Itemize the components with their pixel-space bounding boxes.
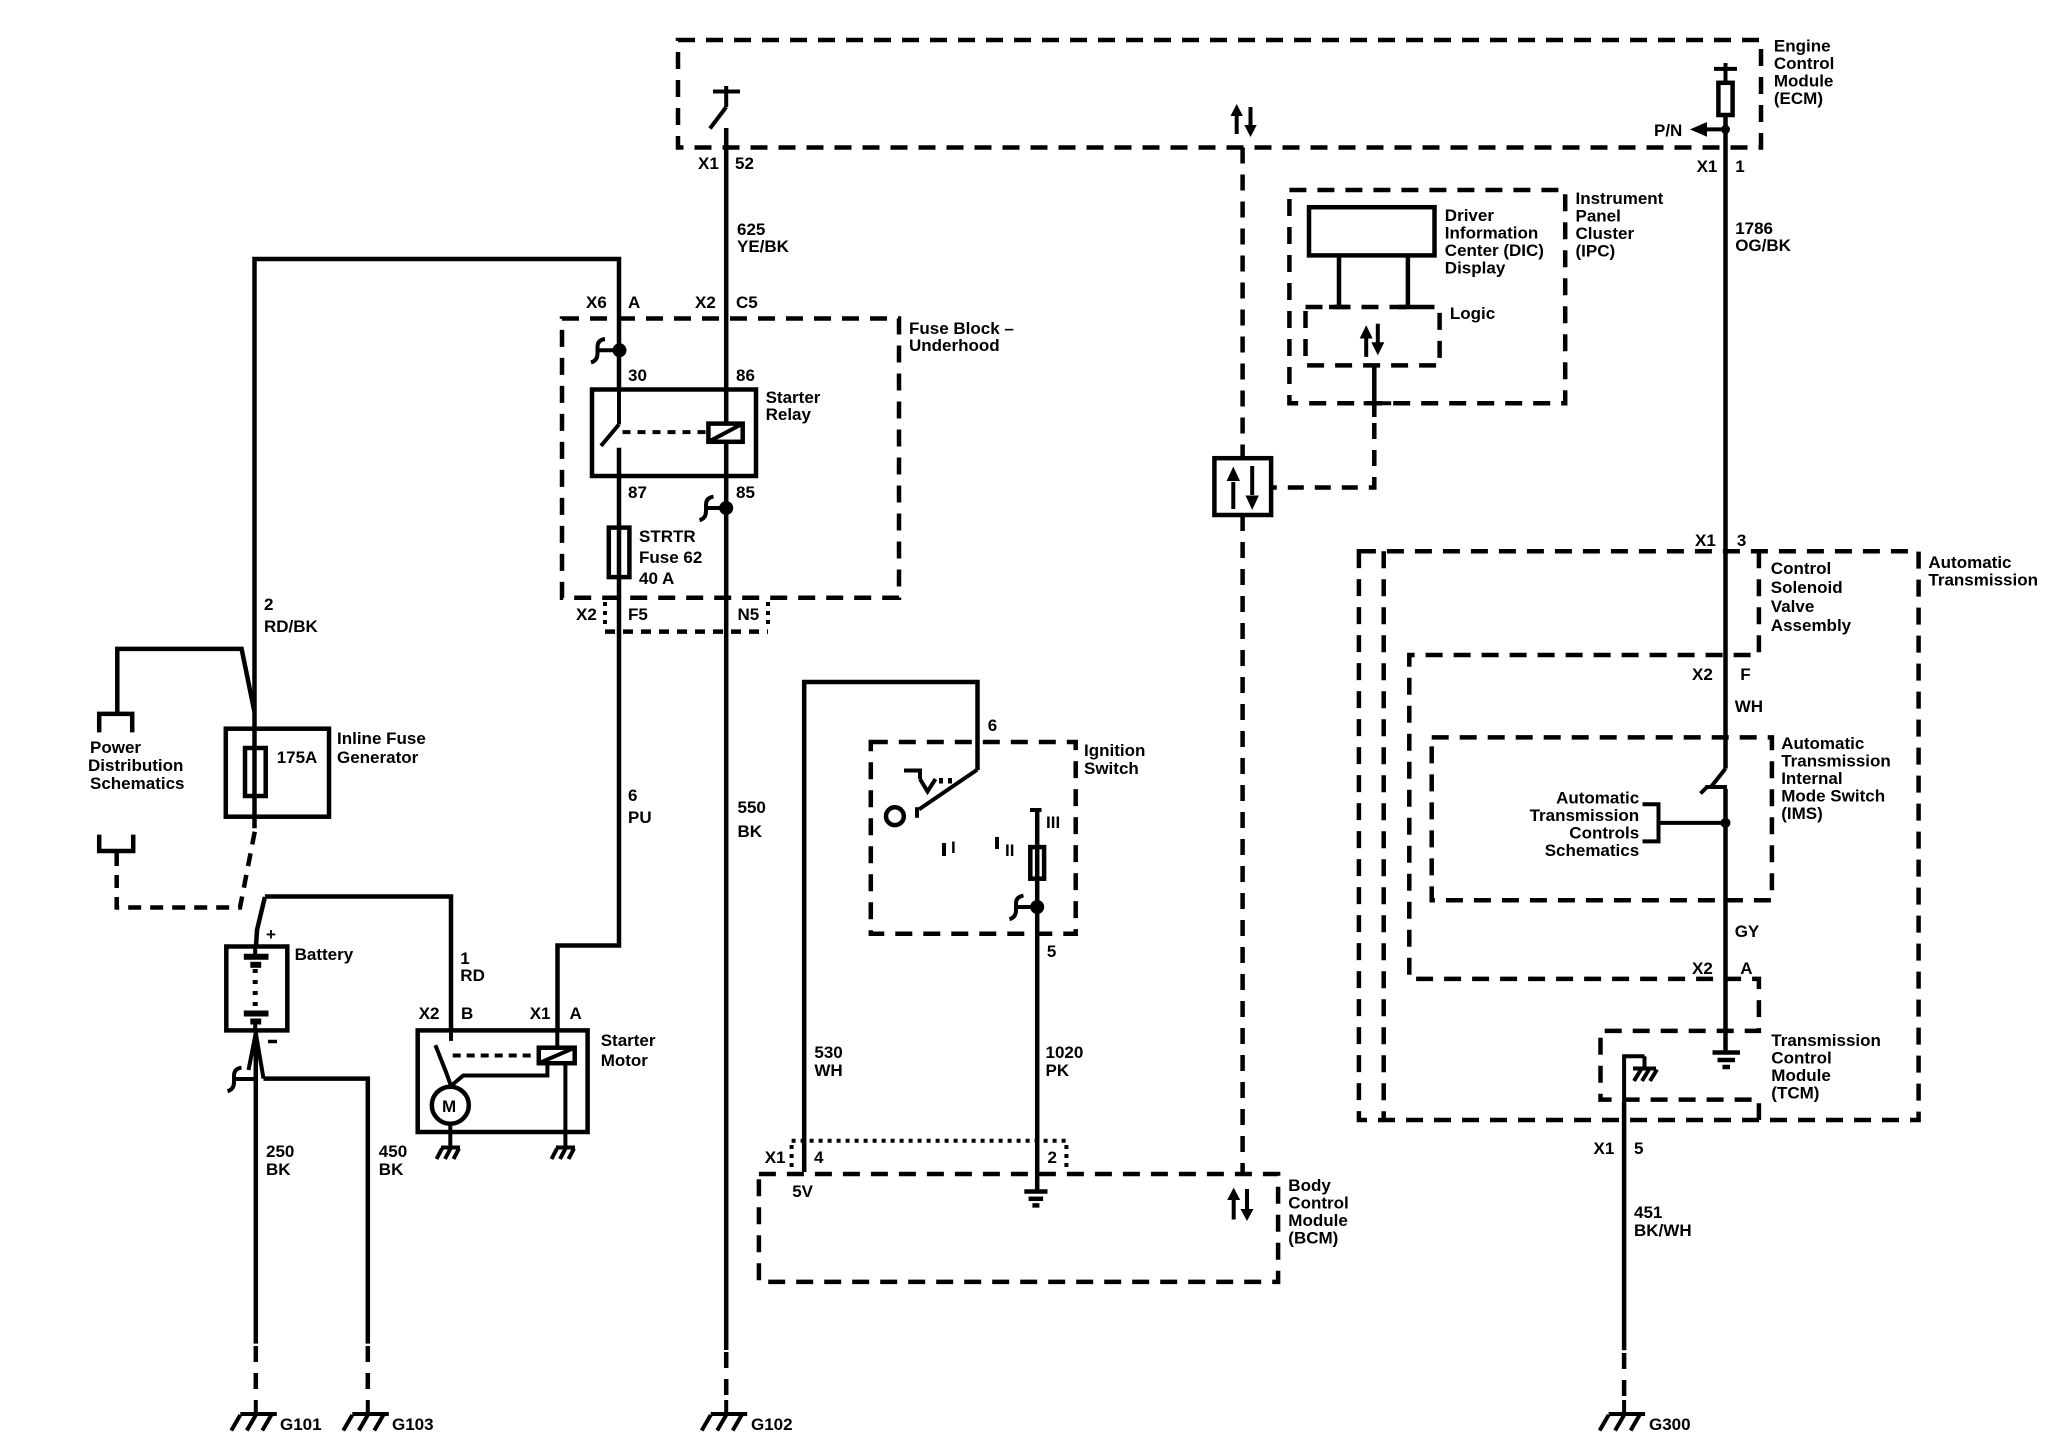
- ground clip at battery: [228, 1068, 256, 1092]
- relay switch blade: [601, 390, 619, 446]
- svg-text:Underhood: Underhood: [909, 336, 1000, 355]
- IPC box: [1289, 190, 1565, 403]
- svg-text:Transmission: Transmission: [1781, 752, 1891, 771]
- svg-text:(ECM): (ECM): [1774, 89, 1823, 108]
- TCM label: [1771, 1031, 1881, 1103]
- dashed drop to G103: [366, 1346, 371, 1400]
- svg-text:Battery: Battery: [295, 945, 354, 964]
- arrows in logic box: [1360, 324, 1385, 357]
- position II: [997, 837, 1014, 860]
- svg-text:Schematics: Schematics: [90, 774, 185, 793]
- ground G103: [343, 1400, 389, 1431]
- wire 1786 OG/BK (ECM X1-1 down): [1723, 115, 1728, 769]
- off-page connector bottom: [99, 835, 133, 851]
- motor ground: [437, 1148, 461, 1160]
- svg-text:5: 5: [1047, 942, 1056, 961]
- ground G102: [702, 1400, 748, 1431]
- svg-text:Control: Control: [1774, 54, 1834, 73]
- svg-text:Mode Switch: Mode Switch: [1781, 787, 1885, 806]
- svg-text:BK/WH: BK/WH: [1634, 1221, 1692, 1240]
- svg-text:X2: X2: [1692, 959, 1713, 978]
- svg-text:250: 250: [266, 1142, 294, 1161]
- svg-text:6: 6: [628, 786, 637, 805]
- svg-text:85: 85: [736, 483, 755, 502]
- svg-text:Distribution: Distribution: [88, 756, 183, 775]
- svg-text:Power: Power: [90, 738, 141, 757]
- svg-text:3: 3: [1737, 531, 1746, 550]
- relay coil: [708, 424, 742, 442]
- svg-text:Automatic: Automatic: [1781, 734, 1864, 753]
- svg-text:Panel: Panel: [1576, 207, 1621, 226]
- svg-text:RD: RD: [460, 966, 485, 985]
- svg-text:450: 450: [379, 1142, 407, 1161]
- svg-text:Logic: Logic: [1450, 304, 1495, 323]
- svg-text:BK: BK: [738, 822, 763, 841]
- svg-text:Instrument: Instrument: [1576, 189, 1664, 208]
- label 530 WH: [814, 1043, 842, 1080]
- svg-text:Driver: Driver: [1445, 206, 1495, 225]
- svg-text:I: I: [951, 838, 956, 857]
- svg-text:52: 52: [735, 154, 754, 173]
- svg-text:Automatic: Automatic: [1928, 553, 2011, 572]
- svg-text:BK: BK: [379, 1160, 404, 1179]
- clip at relay pin 30: [591, 339, 625, 363]
- svg-text:5: 5: [1634, 1139, 1643, 1158]
- label 550 BK: [738, 798, 766, 841]
- svg-text:Switch: Switch: [1084, 759, 1139, 778]
- svg-text:G300: G300: [1649, 1415, 1691, 1434]
- svg-text:175A: 175A: [277, 748, 318, 767]
- svg-text:PK: PK: [1046, 1061, 1070, 1080]
- serial data gateway box: [1214, 458, 1271, 515]
- svg-text:OG/BK: OG/BK: [1735, 236, 1791, 255]
- node X1 4 2: [765, 1148, 1057, 1167]
- svg-text:Cluster: Cluster: [1576, 224, 1635, 243]
- branch 2 RD/BK to power distribution: [117, 649, 254, 714]
- svg-text:B: B: [461, 1004, 473, 1023]
- starter motor box: [418, 1030, 588, 1132]
- svg-text:A: A: [570, 1004, 582, 1023]
- starter motor M: [432, 1087, 469, 1147]
- BCM connector X1: [792, 1141, 1067, 1168]
- svg-text:86: 86: [736, 366, 755, 385]
- svg-text:Transmission: Transmission: [1928, 571, 2038, 590]
- svg-text:Relay: Relay: [766, 405, 812, 424]
- svg-text:1: 1: [1735, 157, 1744, 176]
- svg-text:Transmission: Transmission: [1530, 806, 1640, 825]
- relay pin labels 30 86: [628, 366, 755, 385]
- wire battery feed top horizontal: [255, 259, 620, 828]
- svg-text:Generator: Generator: [337, 748, 419, 767]
- svg-text:BK: BK: [266, 1160, 291, 1179]
- svg-text:Engine: Engine: [1774, 37, 1831, 56]
- svg-text:N5: N5: [738, 605, 760, 624]
- starter relay box: [592, 390, 756, 477]
- ignition switch pivot: [886, 807, 904, 825]
- svg-text:Ignition: Ignition: [1084, 741, 1145, 760]
- ECM box: [678, 40, 1761, 148]
- power distribution label: [88, 738, 185, 793]
- label 625 YE/BK: [737, 220, 790, 256]
- label 1 RD: [460, 949, 485, 985]
- IPC label: [1576, 189, 1664, 261]
- svg-text:+: +: [266, 925, 276, 944]
- serial data arrows in ECM: [1231, 104, 1257, 137]
- ECM label: [1774, 37, 1834, 109]
- node X1 A: [530, 1004, 582, 1023]
- inline fuse generator box: [226, 729, 329, 817]
- label 6 PU: [628, 786, 652, 827]
- svg-text:(BCM): (BCM): [1288, 1229, 1338, 1248]
- starter solenoid coil: [539, 1048, 575, 1064]
- svg-text:Module: Module: [1774, 72, 1834, 91]
- fuse block underhood box: [562, 319, 899, 598]
- wire 530 WH (BCM to ignition): [804, 682, 977, 1172]
- BCM label: [1288, 1176, 1348, 1248]
- svg-text:X1: X1: [1594, 1139, 1615, 1158]
- svg-text:Display: Display: [1445, 259, 1506, 278]
- svg-text:X2: X2: [419, 1004, 440, 1023]
- IMS label: [1781, 734, 1891, 823]
- svg-text:STRTR: STRTR: [639, 527, 696, 546]
- label 451 BK/WH: [1634, 1203, 1692, 1240]
- battery positive wire: [256, 897, 265, 947]
- node X1 52: [698, 154, 754, 173]
- serial data arrows in BCM: [1227, 1188, 1253, 1221]
- dashed drop to G102: [724, 1352, 729, 1400]
- starter pin B stub: [449, 1030, 453, 1041]
- ignition switch label: [1084, 741, 1145, 778]
- fuse STRTR 62: [609, 528, 630, 578]
- junction dot: [1721, 818, 1731, 828]
- node X1 3: [1695, 531, 1746, 550]
- wire 250 BK: [254, 1030, 259, 1343]
- svg-text:G103: G103: [392, 1415, 434, 1434]
- wire 1 RD: [265, 897, 451, 1031]
- svg-text:Starter: Starter: [601, 1031, 656, 1050]
- svg-text:1020: 1020: [1046, 1043, 1084, 1062]
- svg-text:WH: WH: [814, 1061, 842, 1080]
- ECM ignition-off switch: [710, 86, 740, 129]
- svg-text:451: 451: [1634, 1203, 1662, 1222]
- battery minus taps: [249, 1033, 264, 1079]
- ignition switch box: [871, 742, 1076, 934]
- svg-text:X2: X2: [576, 605, 597, 624]
- svg-text:5V: 5V: [792, 1182, 813, 1201]
- starter solenoid switch blade: [435, 1045, 451, 1086]
- wire 6 PU (relay 87 to starter): [558, 448, 620, 1031]
- svg-text:Transmission: Transmission: [1771, 1031, 1881, 1050]
- svg-text:X2: X2: [695, 293, 716, 312]
- IMS box: [1432, 737, 1772, 900]
- clip at relay pin 85: [700, 497, 732, 521]
- starter motor label: [601, 1031, 656, 1070]
- AT controls schematics bracket: [1643, 804, 1722, 841]
- svg-text:F: F: [1740, 665, 1750, 684]
- svg-text:M: M: [442, 1097, 456, 1116]
- node X1 5: [1594, 1139, 1644, 1158]
- ECM pull-up resistor: [1714, 63, 1737, 115]
- fuse label: [639, 527, 702, 588]
- svg-text:Module: Module: [1288, 1211, 1348, 1230]
- svg-text:F5: F5: [628, 605, 648, 624]
- dashed link logic to gateway: [1271, 423, 1374, 488]
- svg-text:P/N: P/N: [1654, 121, 1682, 140]
- svg-text:Information: Information: [1445, 224, 1539, 243]
- svg-text:X1: X1: [530, 1004, 551, 1023]
- svg-text:40 A: 40 A: [639, 569, 674, 588]
- serial data dashed line (ECM to BCM): [1240, 148, 1245, 459]
- battery minus sign: [268, 1040, 277, 1044]
- control solenoid valve assembly label: [1771, 559, 1852, 635]
- control solenoid valve assembly boundary: [1409, 551, 1759, 1120]
- svg-text:YE/BK: YE/BK: [737, 237, 790, 256]
- wire 451 BK/WH: [1622, 1102, 1627, 1350]
- TCM internal ground pin: [1624, 1056, 1657, 1102]
- svg-text:III: III: [1046, 813, 1060, 832]
- solenoid wire A side: [557, 1030, 565, 1147]
- svg-text:Fuse 62: Fuse 62: [639, 548, 702, 567]
- starter relay label: [766, 388, 821, 424]
- ground G300: [1600, 1400, 1646, 1431]
- label 1786 OG/BK: [1735, 219, 1791, 255]
- svg-text:Motor: Motor: [601, 1051, 649, 1070]
- position III: [1030, 810, 1060, 832]
- wire 550 BK (relay 85 down): [724, 442, 729, 1350]
- node X2 F5 N5: [576, 605, 759, 624]
- svg-text:4: 4: [814, 1148, 824, 1167]
- ignition detent: [904, 771, 950, 792]
- svg-text:A: A: [628, 293, 640, 312]
- svg-text:Internal: Internal: [1781, 769, 1842, 788]
- wire 1020 PK: [1035, 810, 1040, 1191]
- svg-text:(TCM): (TCM): [1771, 1084, 1819, 1103]
- svg-text:Center (DIC): Center (DIC): [1445, 241, 1544, 260]
- node X1 1: [1697, 157, 1745, 176]
- IMS wire lower: [1723, 789, 1728, 1051]
- svg-text:A: A: [1740, 959, 1752, 978]
- svg-text:X2: X2: [1692, 665, 1713, 684]
- svg-text:G102: G102: [751, 1415, 793, 1434]
- svg-text:X1: X1: [698, 154, 719, 173]
- svg-text:C5: C5: [736, 293, 758, 312]
- svg-text:(IPC): (IPC): [1576, 242, 1616, 261]
- svg-text:30: 30: [628, 366, 647, 385]
- inline fuse label: [337, 729, 426, 767]
- IMS switch blade: [1701, 769, 1727, 794]
- AT controls schematics label: [1530, 789, 1640, 861]
- node X2 B: [419, 1004, 474, 1023]
- inline fuse element: [245, 748, 266, 796]
- svg-text:2: 2: [264, 595, 273, 614]
- svg-text:GY: GY: [1735, 922, 1760, 941]
- ground G101: [231, 1400, 276, 1431]
- svg-text:Control: Control: [1771, 1049, 1831, 1068]
- automatic transmission box: [1359, 551, 1919, 1120]
- node X2 F: [1692, 665, 1751, 684]
- fuse block label: [909, 319, 1014, 355]
- svg-text:Assembly: Assembly: [1771, 616, 1852, 635]
- svg-text:Automatic: Automatic: [1556, 789, 1639, 808]
- starter actuation dashed link: [453, 1054, 538, 1058]
- svg-text:Module: Module: [1771, 1066, 1831, 1085]
- DIC display: [1309, 207, 1435, 255]
- solenoid ground: [552, 1148, 576, 1160]
- svg-text:Schematics: Schematics: [1545, 841, 1640, 860]
- svg-text:6: 6: [988, 716, 997, 735]
- svg-text:Inline Fuse: Inline Fuse: [337, 729, 426, 748]
- automatic transmission label: [1928, 553, 2038, 590]
- svg-text:Valve: Valve: [1771, 597, 1815, 616]
- svg-text:Solenoid: Solenoid: [1771, 578, 1843, 597]
- dashed branch to battery: [117, 828, 256, 907]
- fuse block connector strip: [605, 602, 768, 632]
- svg-text:RD/BK: RD/BK: [264, 617, 319, 636]
- svg-text:530: 530: [814, 1043, 842, 1062]
- node X6 A: [586, 293, 640, 312]
- starter coil to motor link: [452, 1063, 548, 1085]
- svg-text:Control: Control: [1771, 559, 1831, 578]
- DIC display legs: [1329, 255, 1418, 309]
- logic output wire: [1364, 365, 1392, 417]
- label 250 BK: [266, 1142, 294, 1179]
- dashed drop to G101: [254, 1346, 259, 1400]
- label 1020 PK: [1046, 1043, 1084, 1080]
- ignition switch blade: [917, 770, 977, 818]
- label 2 RD/BK: [264, 595, 319, 636]
- BCM internal ground: [1024, 1192, 1047, 1206]
- DIC label: [1445, 206, 1544, 278]
- svg-text:X6: X6: [586, 293, 607, 312]
- wire 625 YE/BK (X1-52 to relay 86): [724, 128, 729, 424]
- svg-text:Controls: Controls: [1569, 824, 1639, 843]
- svg-text:550: 550: [738, 798, 766, 817]
- control solenoid valve assembly left edge: [1381, 551, 1386, 1120]
- svg-text:X1: X1: [1697, 157, 1718, 176]
- battery: [226, 947, 287, 1031]
- label 450 BK: [379, 1142, 407, 1179]
- off-page connector top: [99, 714, 132, 733]
- svg-text:WH: WH: [1735, 697, 1763, 716]
- svg-text:G101: G101: [280, 1415, 322, 1434]
- svg-text:PU: PU: [628, 808, 652, 827]
- BCM box: [759, 1174, 1278, 1282]
- dashed drop to G300: [1622, 1353, 1627, 1400]
- svg-text:2: 2: [1048, 1148, 1057, 1167]
- ignition resistor: [1030, 847, 1044, 879]
- wire 450 BK: [264, 1079, 368, 1344]
- position I: [944, 838, 956, 857]
- svg-text:Body: Body: [1288, 1176, 1331, 1195]
- P/N arrow: [1654, 121, 1730, 140]
- svg-text:(IMS): (IMS): [1781, 804, 1823, 823]
- node X2 A: [1692, 959, 1753, 978]
- relay pin labels 87 85: [628, 483, 755, 502]
- relay actuation dashed link: [623, 430, 708, 434]
- logic box: [1306, 307, 1440, 365]
- TCM earth ground: [1713, 1053, 1741, 1068]
- clip in ignition switch: [1010, 896, 1043, 920]
- svg-text:X1: X1: [1695, 531, 1716, 550]
- svg-text:X1: X1: [765, 1148, 786, 1167]
- svg-text:Control: Control: [1288, 1194, 1348, 1213]
- node X2 C5: [695, 293, 758, 312]
- svg-text:87: 87: [628, 483, 647, 502]
- svg-text:II: II: [1005, 841, 1014, 860]
